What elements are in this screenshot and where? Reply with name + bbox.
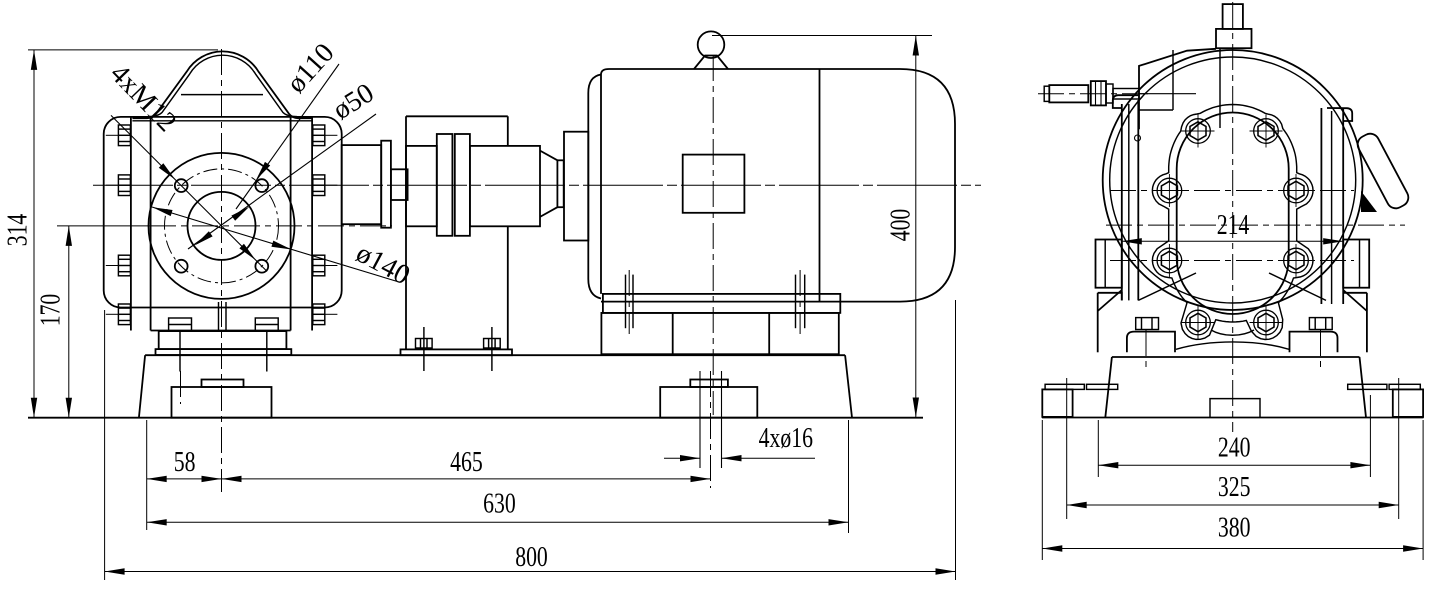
svg-text:214: 214 bbox=[1217, 208, 1250, 241]
svg-text:800: 800 bbox=[515, 540, 548, 573]
svg-text:400: 400 bbox=[883, 209, 916, 242]
svg-text:325: 325 bbox=[1218, 470, 1251, 503]
svg-text:170: 170 bbox=[33, 294, 66, 327]
svg-text:240: 240 bbox=[1218, 431, 1251, 464]
svg-text:630: 630 bbox=[483, 486, 516, 519]
svg-text:4xø16: 4xø16 bbox=[759, 421, 814, 454]
svg-text:465: 465 bbox=[450, 445, 483, 478]
svg-text:314: 314 bbox=[0, 214, 33, 247]
svg-text:58: 58 bbox=[174, 445, 196, 478]
svg-text:380: 380 bbox=[1218, 511, 1251, 544]
